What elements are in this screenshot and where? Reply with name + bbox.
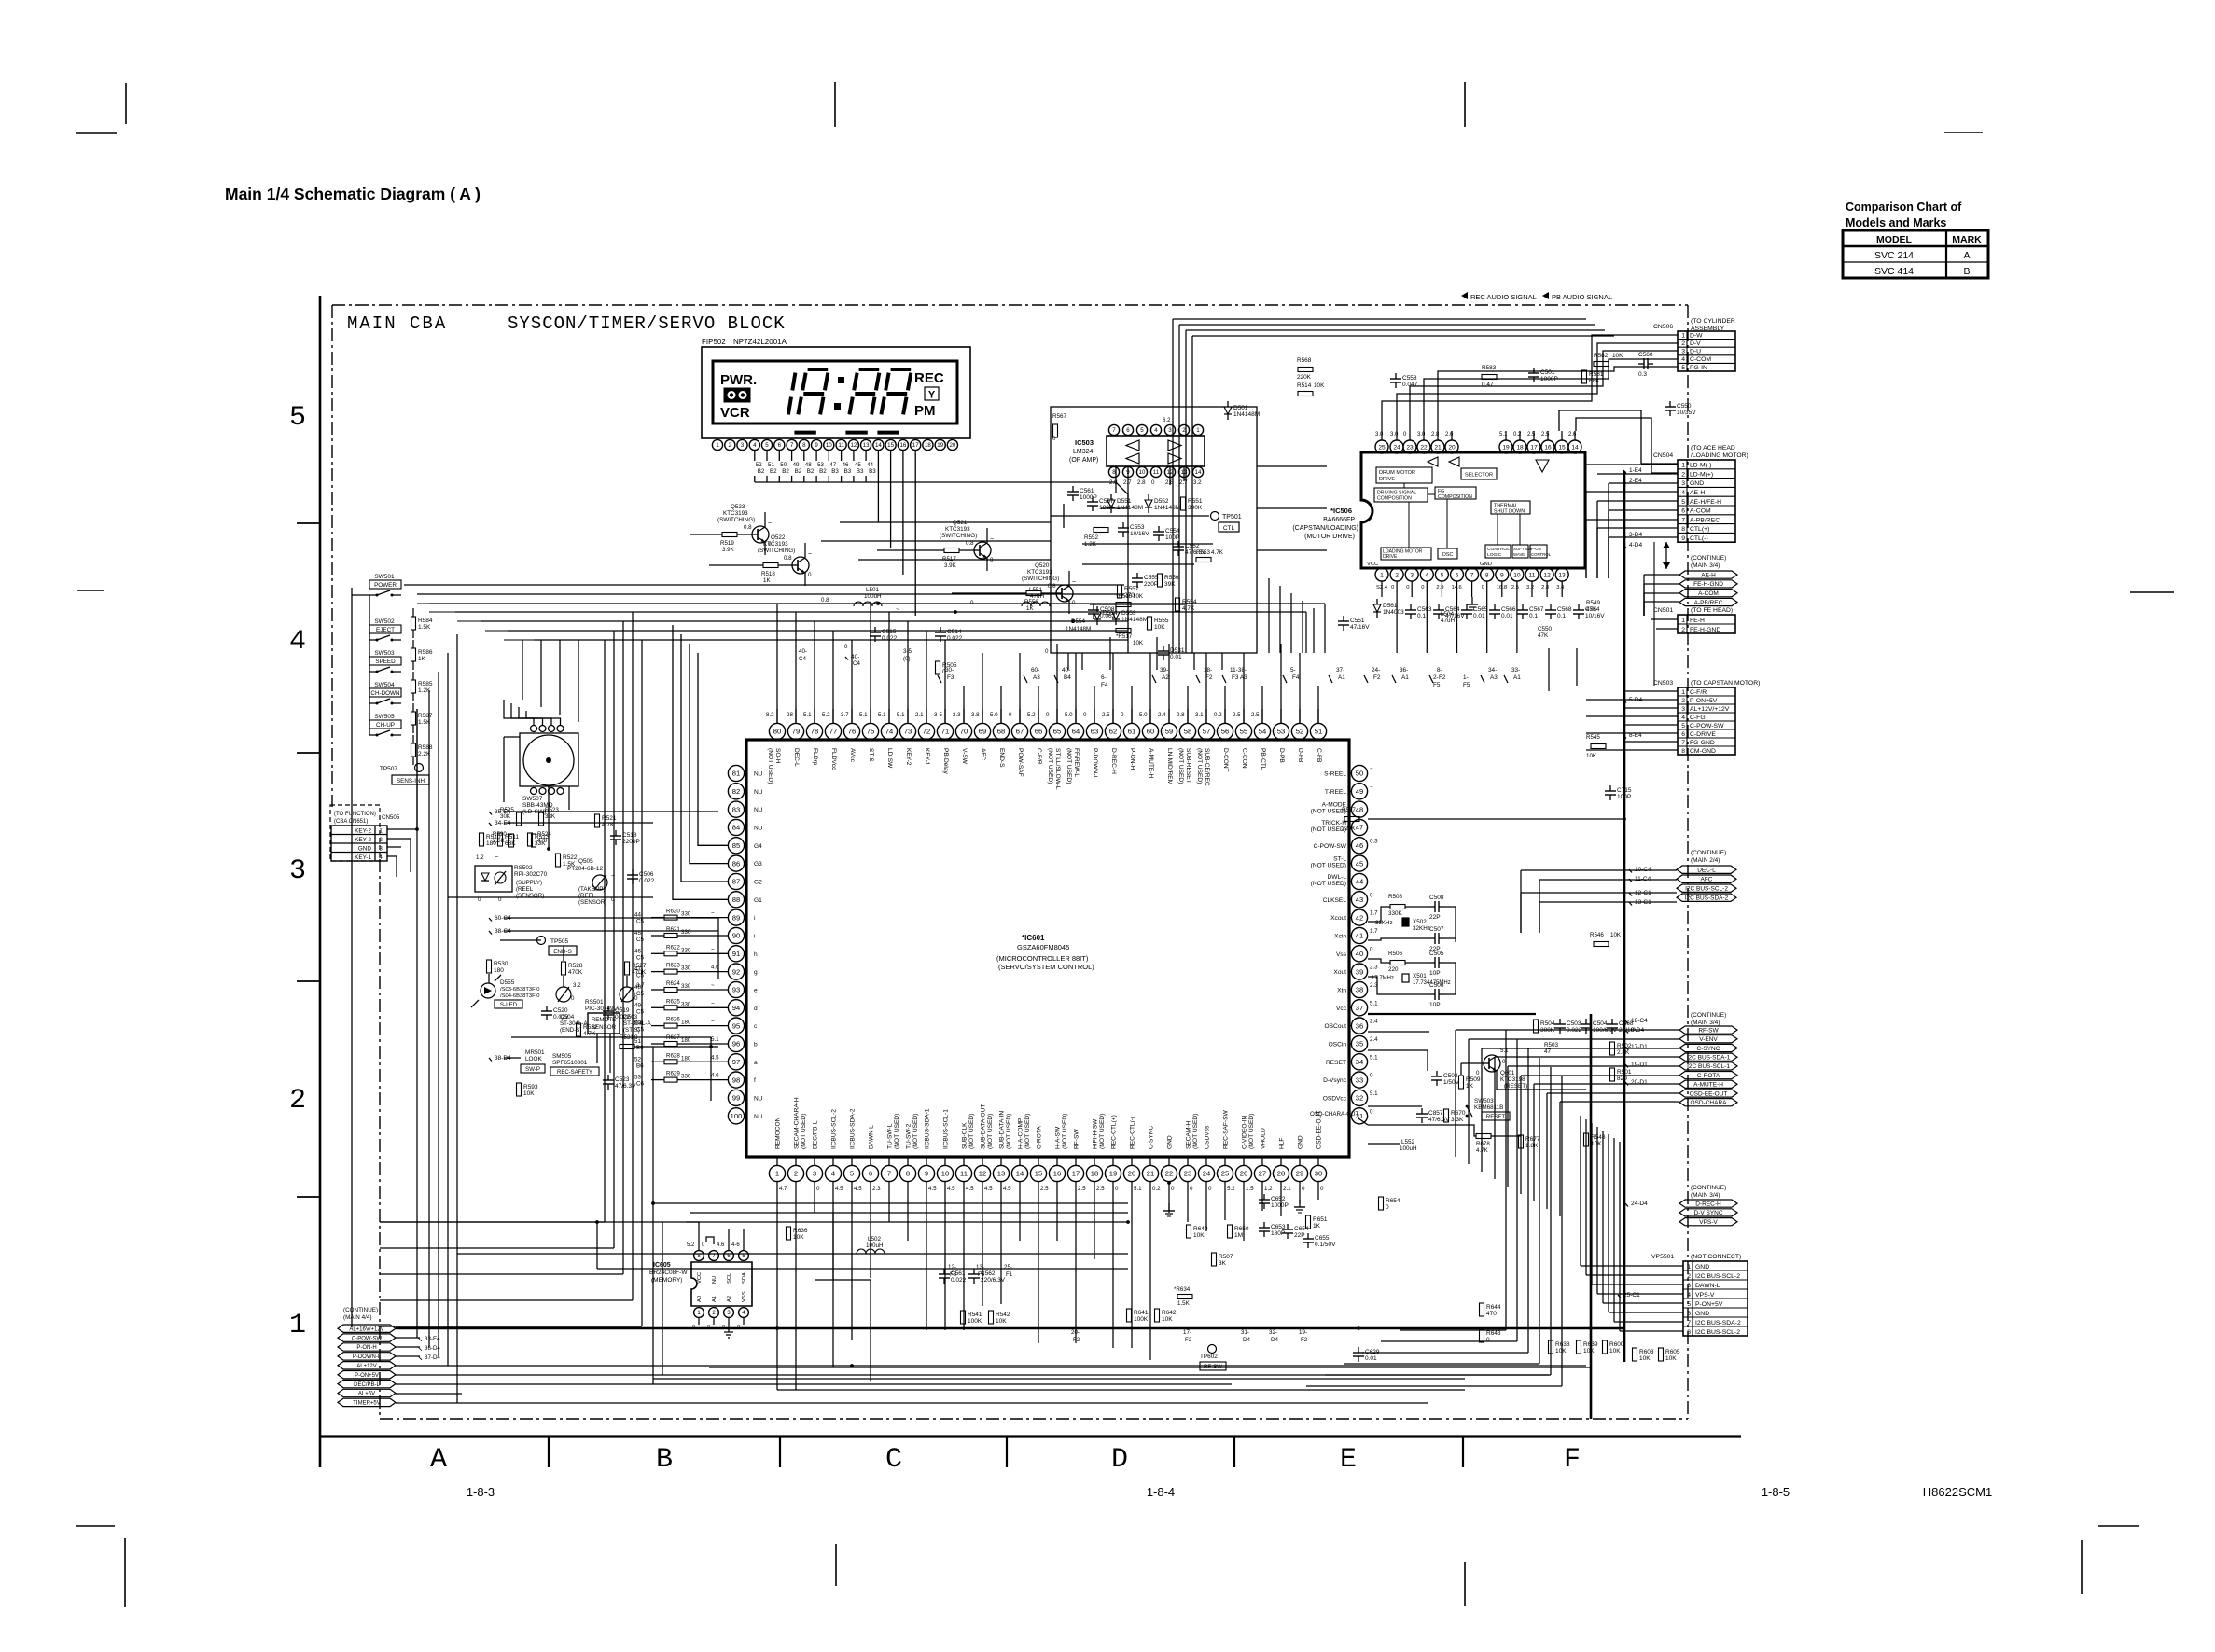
svg-text:5-: 5-: [1290, 667, 1296, 673]
svg-text:1N4003: 1N4003: [1383, 609, 1404, 616]
svg-text:79: 79: [792, 728, 800, 736]
capacitor C654: [1282, 1229, 1293, 1230]
svg-text:4.7K: 4.7K: [1476, 1147, 1489, 1154]
crop mark top-right: [1944, 132, 1983, 133]
svg-text:Q503: Q503: [623, 1014, 638, 1020]
svg-text:D551: D551: [1117, 498, 1132, 505]
svg-text:LOOK: LOOK: [525, 1056, 542, 1062]
svg-text:DEC-L: DEC-L: [1697, 868, 1716, 874]
IC605 ground: [728, 1325, 730, 1332]
svg-text:Q504: Q504: [560, 1014, 575, 1020]
svg-text:3: 3: [1681, 706, 1685, 713]
IC506 internal block LOADING MOTOR DRIVE: [1381, 548, 1431, 560]
svg-text:C5: C5: [636, 1008, 644, 1015]
svg-text:37-: 37-: [1336, 667, 1344, 673]
svg-text:A1: A1: [1401, 674, 1409, 681]
svg-text:A-COM: A-COM: [1698, 590, 1719, 597]
svg-text:0: 0: [808, 572, 812, 578]
svg-text:0: 0: [1370, 1108, 1373, 1115]
CN505 wires: [387, 828, 417, 830]
svg-text:6.2: 6.2: [1163, 417, 1171, 423]
svg-text:180: 180: [681, 1055, 691, 1062]
svg-text:1K: 1K: [418, 656, 426, 662]
resistor R501: [1610, 1068, 1615, 1081]
resistor R508 330K: [1390, 905, 1405, 909]
pin31 wire: [1368, 1143, 1400, 1145]
svg-text:94: 94: [732, 1004, 740, 1012]
svg-text:REC-CTL(+): REC-CTL(+): [1111, 1115, 1118, 1149]
IC605 pin 5: [739, 1251, 749, 1261]
svg-text:ST-304L-A: ST-304L-A: [623, 1020, 651, 1027]
svg-text:10: 10: [1513, 572, 1521, 578]
svg-text:6: 6: [1681, 508, 1685, 515]
svg-text:*R515: *R515: [1116, 593, 1133, 600]
svg-text:END-S: END-S: [553, 949, 572, 955]
right fan verticals to bottom rails: [1505, 1030, 1507, 1330]
svg-text:PB AUDIO SIGNAL: PB AUDIO SIGNAL: [1552, 293, 1612, 301]
svg-text:~: ~: [711, 1019, 715, 1025]
svg-text:C568: C568: [1557, 606, 1572, 613]
crop mark top-center-2: [1464, 82, 1466, 127]
svg-text:4-6: 4-6: [731, 1242, 740, 1248]
svg-text:0: 0: [1045, 648, 1049, 655]
svg-text:TU-SW-2: TU-SW-2: [906, 1123, 912, 1149]
svg-text:AL+12V: AL+12V: [356, 1364, 377, 1369]
FIP502 display inner box: [713, 361, 957, 423]
svg-text:0.47: 0.47: [1482, 382, 1494, 388]
svg-text:~: ~: [808, 551, 812, 558]
svg-text:C-ROTA: C-ROTA: [1037, 1126, 1043, 1149]
svg-text:(MOTOR DRIVE): (MOTOR DRIVE): [1304, 534, 1355, 540]
svg-text:SELECTOR: SELECTOR: [1465, 473, 1493, 479]
svg-text:100K: 100K: [1134, 1316, 1149, 1323]
svg-text:(NOT USED): (NOT USED): [1192, 1114, 1199, 1149]
svg-text:IICBUS-SCL-2: IICBUS-SCL-2: [831, 1109, 838, 1149]
resistor R532: [577, 1023, 581, 1036]
svg-text:0.022: 0.022: [951, 1277, 967, 1284]
svg-text:5.1: 5.1: [1499, 432, 1508, 437]
svg-text:30: 30: [1315, 1170, 1322, 1178]
svg-text:24: 24: [1393, 444, 1400, 451]
svg-text:2.3: 2.3: [872, 1186, 881, 1192]
resistor R509: [1459, 1076, 1464, 1089]
svg-text:C518: C518: [622, 832, 637, 839]
svg-text:14: 14: [1016, 1170, 1024, 1178]
svg-text:42: 42: [1356, 913, 1363, 922]
svg-text:~: ~: [495, 854, 498, 861]
wires from op-amp box bottom: [1067, 653, 1069, 670]
svg-text:R530: R530: [494, 961, 508, 967]
resistor R518: [763, 563, 778, 568]
IC506 internal wires: [1403, 483, 1405, 488]
svg-text:0: 0: [1083, 712, 1087, 718]
svg-text:(SWITCHING): (SWITCHING): [758, 548, 795, 554]
svg-text:1K: 1K: [1313, 1223, 1321, 1229]
FIP502 seven-segment digit 1: [792, 373, 795, 391]
svg-text:COMPOSITION: COMPOSITION: [1377, 496, 1412, 502]
svg-text:92: 92: [732, 967, 740, 976]
svg-text:4: 4: [1681, 715, 1685, 721]
svg-text:R638: R638: [1555, 1341, 1570, 1348]
IC605 pin 3: [724, 1308, 734, 1318]
resistor R531: [620, 1045, 634, 1049]
svg-text:(TO FUNCTION): (TO FUNCTION): [334, 812, 376, 817]
svg-text:(NOT USED): (NOT USED): [894, 1114, 900, 1149]
resistor R588: [411, 743, 416, 757]
svg-text:5.2: 5.2: [687, 1242, 695, 1248]
svg-text:33K: 33K: [545, 813, 556, 820]
svg-text:29: 29: [1296, 1170, 1303, 1178]
FIP502 cassette icon: [724, 388, 750, 402]
svg-text:3.0: 3.0: [1390, 432, 1399, 437]
svg-text:KTC3193: KTC3193: [945, 526, 970, 533]
svg-text:L501: L501: [866, 587, 880, 593]
svg-text:VSS: VSS: [742, 1291, 747, 1302]
svg-text:50-: 50-: [780, 462, 788, 468]
svg-text:NU: NU: [754, 771, 763, 778]
schematic border left upper: [331, 305, 333, 807]
svg-text:93: 93: [732, 986, 740, 994]
svg-text:(MAIN 4/4): (MAIN 4/4): [343, 1314, 371, 1321]
svg-text:RF-SW: RF-SW: [1074, 1129, 1080, 1149]
svg-text:0: 0: [634, 1034, 638, 1041]
svg-text:41: 41: [1356, 932, 1363, 940]
Vcc rail from pin 37: [1368, 1013, 1536, 1015]
svg-text:10K: 10K: [793, 1234, 804, 1241]
svg-text:DRIVE: DRIVE: [1383, 554, 1398, 560]
svg-text:1: 1: [716, 442, 719, 449]
FIP502 pin destination labels: [754, 451, 756, 461]
svg-text:26: 26: [1240, 1170, 1247, 1178]
svg-text:4: 4: [1681, 490, 1685, 496]
svg-text:72: 72: [923, 728, 930, 736]
svg-text:(MAIN 3/4): (MAIN 3/4): [1691, 562, 1720, 569]
svg-text:LD-M(-): LD-M(-): [1690, 463, 1711, 469]
svg-text:D-REC-H: D-REC-H: [1110, 748, 1117, 774]
svg-text:(MAIN 3/4): (MAIN 3/4): [1691, 1020, 1720, 1026]
svg-text:46-: 46-: [843, 462, 851, 468]
svg-text:51: 51: [1315, 728, 1322, 736]
svg-text:KTC3193: KTC3193: [1027, 569, 1052, 576]
svg-text:3: 3: [741, 442, 745, 449]
svg-text:1-8-4: 1-8-4: [1147, 1485, 1175, 1499]
svg-text:5: 5: [1687, 1301, 1691, 1308]
svg-text:84: 84: [732, 824, 740, 832]
svg-text:D-V SYNC: D-V SYNC: [1693, 1210, 1722, 1216]
svg-text:35: 35: [1356, 1040, 1363, 1048]
svg-text:68: 68: [997, 728, 1005, 736]
capacitor C520: [541, 1010, 552, 1012]
svg-text:10/16V: 10/16V: [1130, 531, 1149, 537]
svg-text:14: 14: [1195, 469, 1202, 476]
resistor R640: [1187, 1225, 1191, 1238]
reset circuit C568b: [1607, 1023, 1618, 1025]
svg-text:AE-H/FE-H: AE-H/FE-H: [1690, 499, 1721, 506]
resistor R582: [1594, 362, 1609, 367]
svg-text:A-MUTE-H: A-MUTE-H: [1693, 1082, 1723, 1089]
svg-text:0.022: 0.022: [947, 635, 963, 642]
resistor R522: [556, 854, 561, 867]
svg-text:12: 12: [850, 442, 857, 449]
svg-text:RF-SW: RF-SW: [1698, 1027, 1719, 1034]
IC506 top pins 25..20: [1375, 440, 1388, 453]
svg-text:TP501: TP501: [1222, 514, 1242, 521]
svg-text:2200P: 2200P: [622, 839, 640, 845]
svg-text:C558: C558: [1402, 375, 1417, 382]
svg-text:49: 49: [1356, 787, 1363, 796]
capacitor C560-2: [1643, 358, 1645, 369]
svg-text:3: 3: [1168, 427, 1172, 434]
svg-text:25: 25: [1378, 444, 1386, 451]
svg-text:0: 0: [1370, 1073, 1373, 1079]
svg-text:SECAM-H: SECAM-H: [1186, 1120, 1192, 1149]
svg-text:GSZA60FM8045: GSZA60FM8045: [1017, 943, 1069, 951]
svg-text:C-POW-SW: C-POW-SW: [352, 1336, 383, 1341]
resistor R515: [1116, 603, 1131, 607]
svg-text:B3: B3: [844, 468, 852, 475]
resistor R514 10K: [1298, 392, 1313, 396]
svg-text:15: 15: [1558, 444, 1566, 451]
svg-text:1N4148M: 1N4148M: [1066, 626, 1091, 632]
svg-text:~: ~: [1072, 579, 1076, 586]
capacitor C564b: [1573, 609, 1584, 611]
svg-text:d: d: [754, 1006, 758, 1012]
svg-text:16: 16: [899, 442, 906, 449]
reel sensor resistors: [480, 833, 484, 846]
svg-text:SW505: SW505: [374, 714, 395, 720]
svg-text:10K: 10K: [1591, 1141, 1602, 1147]
svg-text:R549: R549: [1586, 600, 1601, 606]
svg-text:39: 39: [1356, 967, 1363, 976]
svg-text:3.4: 3.4: [1556, 585, 1565, 590]
svg-text:F2: F2: [1373, 674, 1381, 681]
capacitor C629: [1353, 1352, 1364, 1354]
svg-text:40: 40: [1356, 950, 1363, 958]
junction dots on power rails: [415, 827, 419, 831]
svg-text:1.5K: 1.5K: [1177, 1300, 1191, 1307]
svg-text:R546: R546: [1590, 932, 1604, 938]
svg-text:R643: R643: [1486, 1330, 1501, 1337]
svg-text:H-A-COMP: H-A-COMP: [1018, 1118, 1024, 1149]
svg-text:0: 0: [1190, 1186, 1193, 1192]
svg-text:B2: B2: [782, 468, 789, 475]
svg-text:2: 2: [1395, 572, 1399, 578]
svg-text:SENSOR: SENSOR: [592, 1024, 617, 1031]
op-amp to motor-driver wires: [1257, 465, 1327, 467]
svg-text:f: f: [754, 1077, 756, 1084]
svg-text:GND: GND: [1480, 562, 1492, 567]
capacitor C508b: [1088, 609, 1099, 611]
svg-text:86: 86: [732, 859, 740, 868]
svg-text:8: 8: [906, 1170, 910, 1178]
svg-text:KEY-1: KEY-1: [355, 854, 371, 861]
resistor R584: [411, 617, 416, 630]
svg-text:TP602: TP602: [1200, 1354, 1218, 1360]
FIP502 seven-segment digit 8 (third): [859, 368, 880, 371]
svg-text:2.4: 2.4: [1158, 712, 1166, 718]
svg-text:10K: 10K: [1154, 624, 1165, 631]
svg-text:R642: R642: [1162, 1310, 1177, 1316]
svg-text:5.2: 5.2: [822, 712, 830, 718]
svg-text:COMPOSITION: COMPOSITION: [1438, 494, 1472, 500]
svg-text:MARK: MARK: [1952, 234, 1982, 245]
svg-text:PG-IN: PG-IN: [1690, 365, 1707, 371]
svg-text:R553: R553: [1196, 549, 1211, 556]
svg-text:C514: C514: [947, 629, 962, 635]
svg-text:C655: C655: [1315, 1235, 1330, 1242]
svg-text:4.5: 4.5: [854, 1186, 862, 1192]
svg-text:180: 180: [494, 967, 504, 974]
svg-text:1: 1: [1681, 463, 1685, 469]
IC506 internal block SOFT SW WAVE: [1512, 545, 1528, 558]
svg-text:CH-DOWN: CH-DOWN: [370, 690, 400, 697]
svg-text:13: 13: [997, 1170, 1005, 1178]
capacitor C558: [1390, 378, 1401, 380]
IC605 pin 2: [709, 1308, 719, 1318]
svg-text:T-REEL: T-REEL: [1325, 789, 1346, 796]
svg-text:(CBA CN651): (CBA CN651): [334, 819, 368, 825]
svg-text:22P: 22P: [1429, 914, 1441, 921]
svg-text:46: 46: [1356, 841, 1363, 850]
svg-text:0: 0: [1370, 946, 1373, 952]
svg-text:REC-SAF-SW: REC-SAF-SW: [1223, 1109, 1230, 1149]
svg-text:1-E4: 1-E4: [1629, 467, 1642, 474]
REC/PB audio signal note: [1461, 292, 1468, 299]
svg-text:330: 330: [681, 965, 691, 972]
svg-text:1.2: 1.2: [1264, 1186, 1273, 1192]
svg-text:Q520: Q520: [1035, 562, 1050, 569]
svg-text:1N4148M: 1N4148M: [1154, 505, 1180, 511]
svg-text:Models and Marks: Models and Marks: [1846, 216, 1946, 229]
svg-text:LD-SW: LD-SW: [886, 748, 893, 769]
capacitor C561x: [939, 1273, 950, 1275]
svg-text:C550: C550: [1538, 626, 1553, 632]
resistor R642: [1155, 1309, 1160, 1322]
svg-text:D555: D555: [500, 979, 515, 986]
resistor R583: [1482, 375, 1497, 380]
svg-text:FE-H-GND: FE-H-GND: [1693, 581, 1723, 588]
wire mesh below IC601 pins: [776, 1182, 778, 1231]
svg-text:IICBUS-SCL-1: IICBUS-SCL-1: [943, 1109, 950, 1149]
svg-text:20: 20: [1448, 444, 1456, 451]
svg-text:Q505: Q505: [578, 858, 593, 865]
svg-text:65: 65: [1053, 728, 1061, 736]
svg-text:(NOT USED): (NOT USED): [767, 748, 773, 784]
svg-text:5.0: 5.0: [990, 712, 998, 718]
svg-text:FF/REW-L: FF/REW-L: [1073, 748, 1080, 777]
svg-text:FG-GND: FG-GND: [1690, 740, 1715, 746]
svg-text:(NOT USED): (NOT USED): [1024, 1114, 1031, 1149]
svg-text:REMOCON: REMOCON: [775, 1117, 782, 1149]
svg-text:h: h: [754, 951, 758, 958]
svg-text:5.1: 5.1: [803, 712, 812, 718]
svg-text:47: 47: [1356, 824, 1363, 832]
svg-text:R531: R531: [620, 1034, 634, 1041]
svg-text:1: 1: [1681, 332, 1685, 339]
IC506 internal block P-ON CONTROL: [1530, 545, 1547, 558]
svg-text:CN505: CN505: [382, 814, 400, 821]
svg-text:R623: R623: [666, 963, 680, 969]
end sensor Q504: [556, 987, 571, 1002]
svg-text:C652: C652: [1271, 1196, 1286, 1202]
svg-text:0.1: 0.1: [1417, 613, 1426, 619]
resistor R677: [1519, 1135, 1524, 1148]
svg-text:0: 0: [1476, 1070, 1480, 1076]
loading switch SW507 drum: [520, 733, 578, 786]
resistor R639: [1577, 1340, 1581, 1354]
svg-text:P-ON+5V: P-ON+5V: [355, 1373, 379, 1379]
svg-text:KEY-1: KEY-1: [924, 748, 930, 766]
svg-text:TP507: TP507: [380, 766, 398, 772]
svg-text:10P: 10P: [1429, 1002, 1441, 1008]
svg-text:0: 0: [1302, 1186, 1305, 1192]
svg-text:2: 2: [794, 1170, 798, 1178]
svg-text:P-DOWN-L: P-DOWN-L: [1092, 748, 1098, 780]
svg-text:R593: R593: [523, 1084, 538, 1090]
svg-text:VHOLD: VHOLD: [1261, 1128, 1267, 1149]
svg-text:(0): (0): [903, 656, 911, 662]
svg-text:0: 0: [634, 995, 638, 1002]
svg-text:74: 74: [885, 728, 893, 736]
op-amp circuit enclosure: [1051, 407, 1257, 653]
svg-text:CONTROL: CONTROL: [1531, 552, 1552, 557]
svg-text:0: 0: [816, 1186, 820, 1192]
svg-text:R678: R678: [1476, 1141, 1490, 1147]
resistor R505: [936, 661, 940, 674]
svg-text:0.1: 0.1: [1557, 613, 1566, 619]
svg-text:3.1: 3.1: [1195, 712, 1204, 718]
svg-text:470K: 470K: [568, 969, 583, 976]
svg-text:18-C4: 18-C4: [1631, 1018, 1648, 1024]
op-amp area components: [1053, 424, 1058, 437]
svg-text:C520: C520: [553, 1007, 568, 1014]
svg-text:51-: 51-: [768, 462, 776, 468]
svg-text:0: 0: [1391, 585, 1394, 590]
wires from IC506 top to CN506: [1382, 335, 1678, 431]
svg-text:52-: 52-: [756, 462, 764, 468]
svg-text:A0: A0: [697, 1296, 703, 1302]
capacitor C507: [1434, 933, 1436, 944]
svg-text:48: 48: [1356, 805, 1363, 813]
svg-text:71: 71: [941, 728, 949, 736]
IC506 internal block DRIVING SIGNAL COMPOSITION: [1374, 488, 1428, 502]
svg-text:MODEL: MODEL: [1876, 234, 1913, 245]
comparison chart table: [1843, 230, 1988, 278]
svg-text:77: 77: [829, 728, 837, 736]
svg-text:10K: 10K: [1612, 353, 1623, 359]
svg-text:330: 330: [681, 1074, 691, 1080]
svg-text:3: 3: [1687, 1283, 1691, 1289]
svg-text:AL+16V/+12V: AL+16V/+12V: [349, 1326, 383, 1332]
svg-text:P-ON+5V: P-ON+5V: [1690, 698, 1718, 704]
svg-text:330: 330: [681, 983, 691, 990]
schematic border bottom: [380, 1418, 1688, 1420]
svg-text:S-LED: S-LED: [500, 1002, 518, 1008]
svg-text:B6: B6: [636, 1062, 644, 1069]
svg-text:SECAM-CHARA-H: SECAM-CHARA-H: [794, 1097, 801, 1149]
svg-text:69: 69: [979, 728, 986, 736]
svg-text:2: 2: [1681, 627, 1685, 633]
svg-text:D4: D4: [1271, 1337, 1278, 1343]
reset circuit C504: [1581, 1023, 1592, 1025]
svg-text:F: F: [1564, 1444, 1581, 1476]
svg-text:(CONTINUE): (CONTINUE): [1691, 1012, 1726, 1019]
svg-text:A3: A3: [1490, 674, 1498, 681]
svg-text:(MAIN 2/4): (MAIN 2/4): [1691, 857, 1720, 864]
svg-text:C-F/R: C-F/R: [1036, 748, 1042, 765]
svg-text:STILL/SLOW-L: STILL/SLOW-L: [1054, 748, 1061, 790]
svg-text:KEY-2: KEY-2: [355, 827, 371, 834]
